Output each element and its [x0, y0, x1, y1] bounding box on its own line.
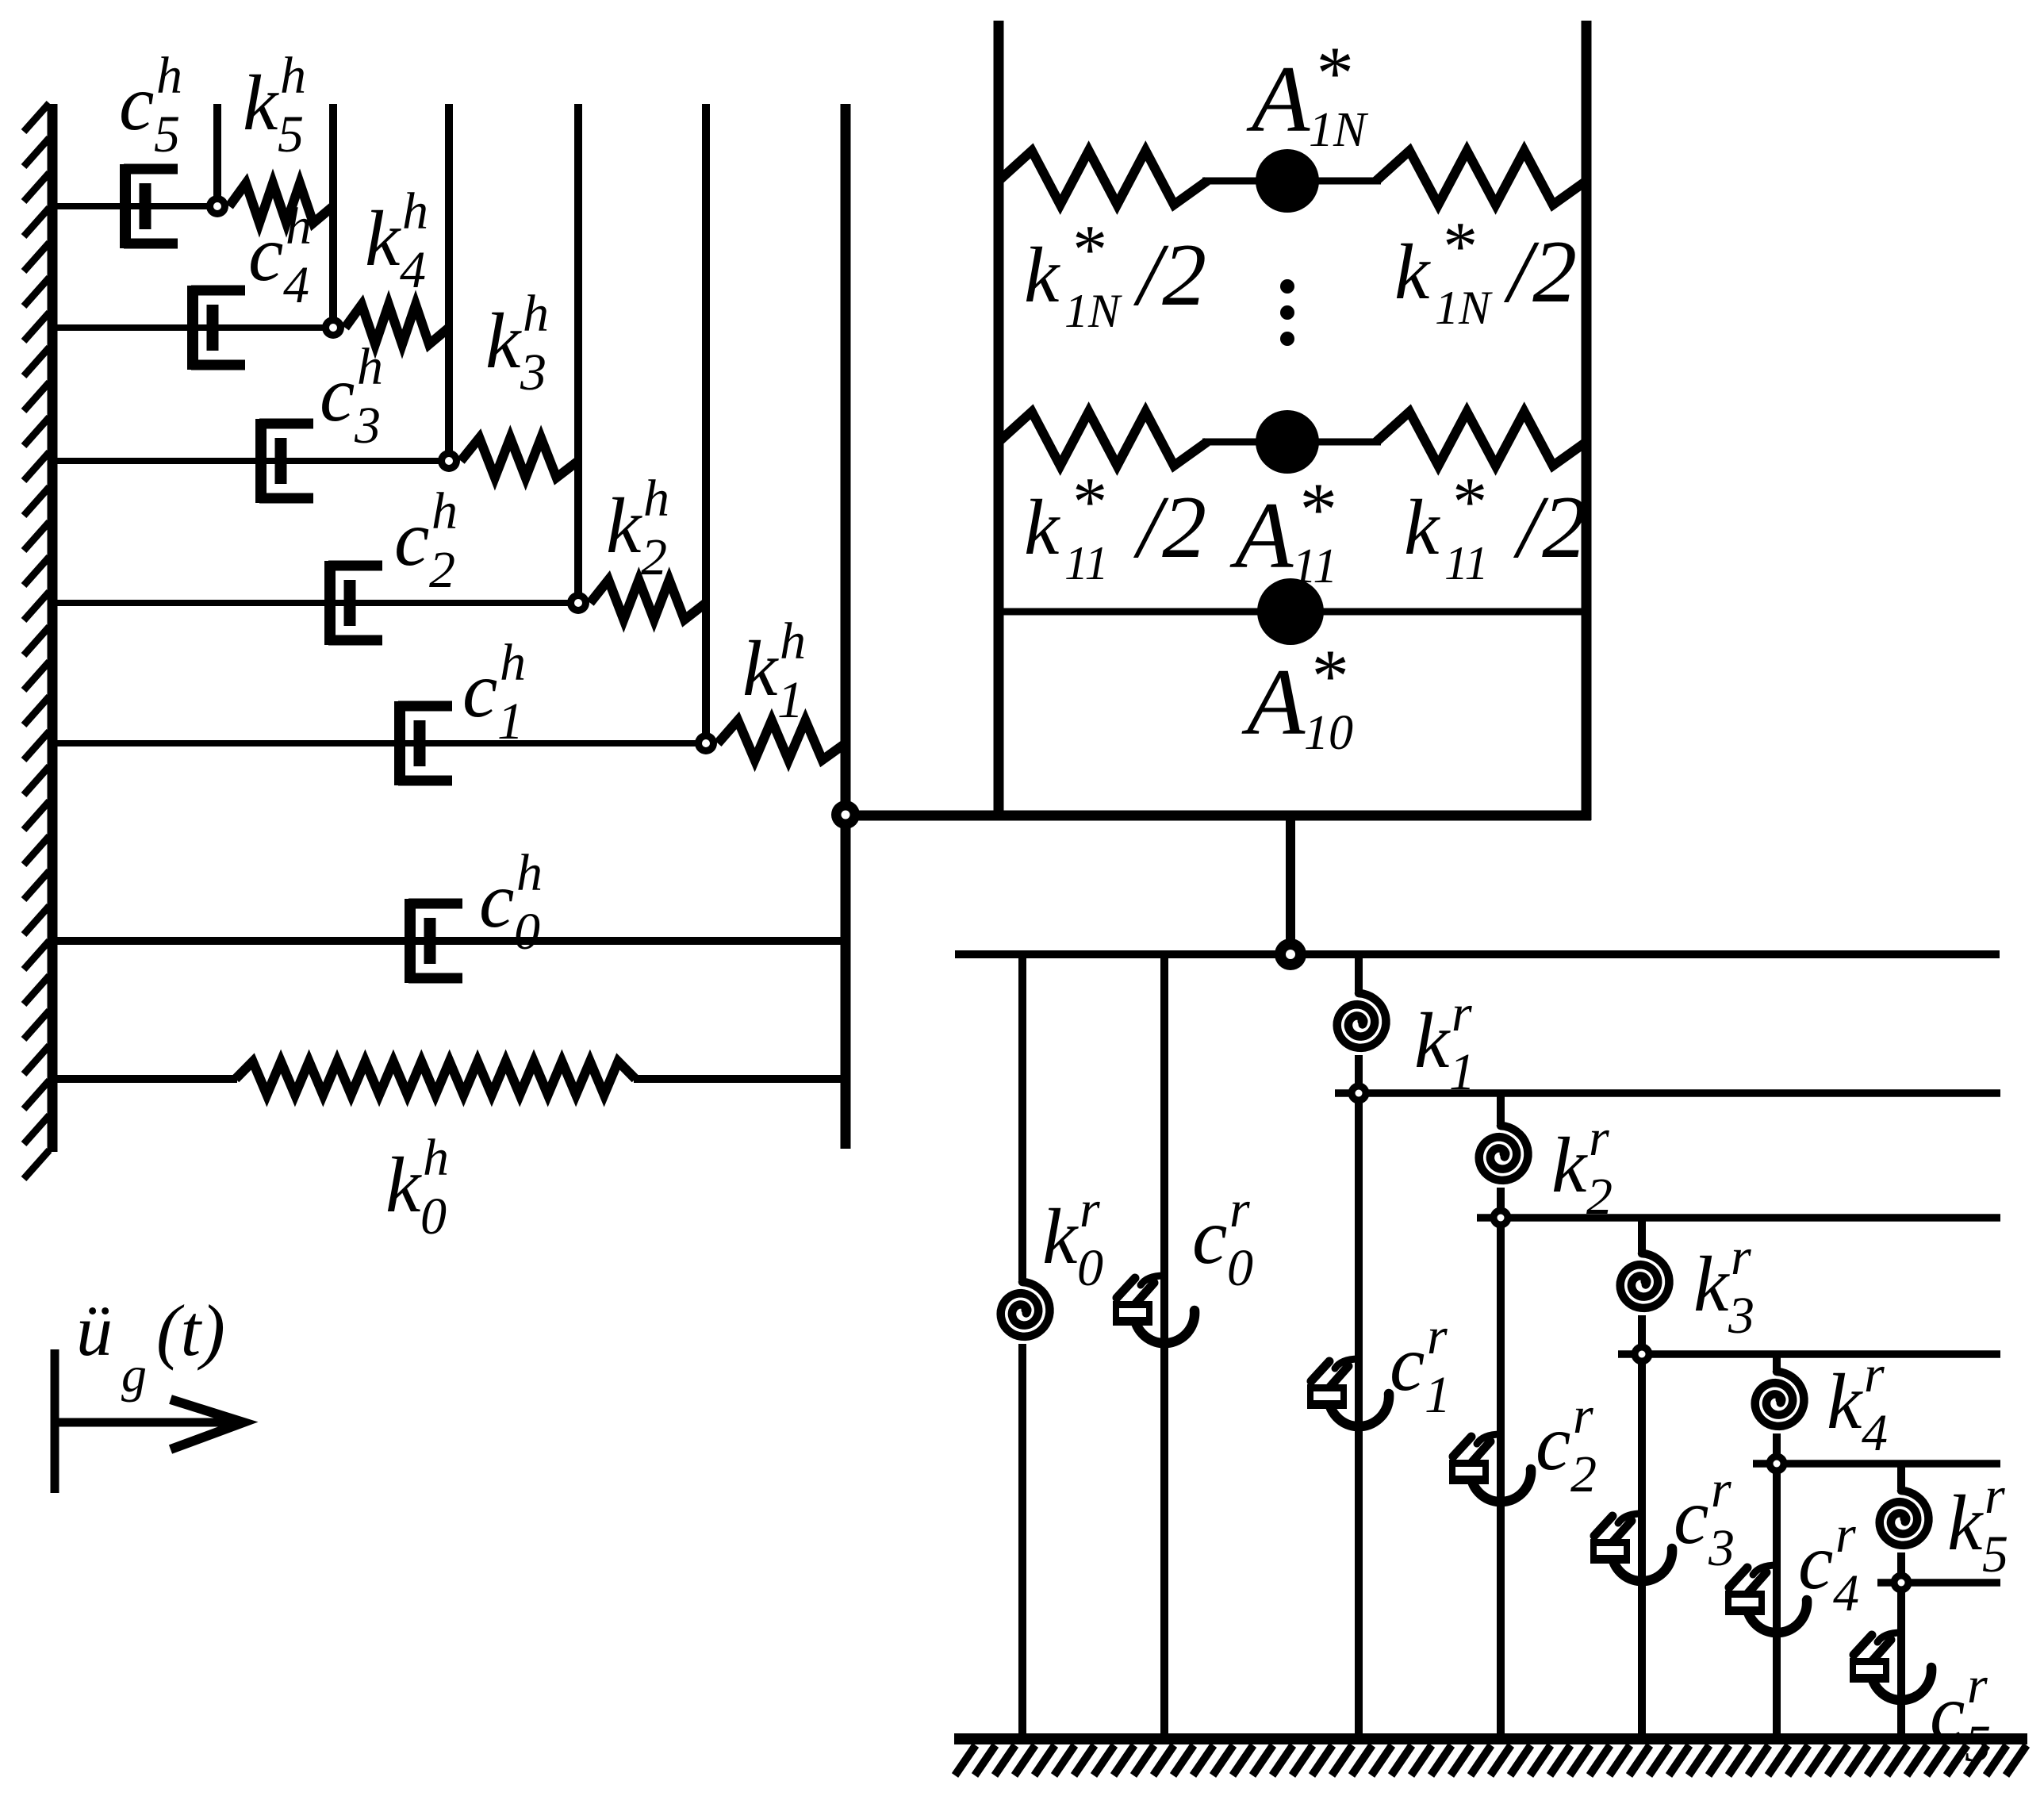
- node row 5: [206, 195, 228, 217]
- svg-text:r: r: [1427, 1307, 1448, 1365]
- box row 1N right spring k*_1N/2: [1376, 151, 1586, 205]
- svg-text:/2: /2: [1133, 226, 1206, 324]
- svg-text:h: h: [431, 482, 458, 540]
- svg-text:c: c: [479, 856, 514, 944]
- node row 4: [322, 317, 344, 339]
- svg-text:r: r: [1573, 1387, 1593, 1445]
- rotational spring k5^r: [1880, 1491, 1929, 1545]
- svg-text:h: h: [500, 634, 526, 692]
- svg-text:h: h: [423, 1129, 449, 1187]
- ground motion reference post: [51, 1349, 59, 1493]
- chain k0 column upper: [1018, 954, 1026, 1280]
- svg-text:2: 2: [429, 541, 455, 599]
- svg-text:11: 11: [1292, 539, 1337, 593]
- svg-text:c: c: [320, 350, 355, 438]
- svg-text:r: r: [1080, 1180, 1100, 1238]
- svg-text:h: h: [780, 612, 806, 670]
- rotational spring k2^r: [1479, 1126, 1528, 1180]
- svg-text:1N: 1N: [1435, 282, 1493, 334]
- chain 1 column: [1355, 954, 1363, 1739]
- svg-text:r: r: [1731, 1228, 1751, 1286]
- chain c0 column: [1160, 954, 1168, 1739]
- chain 4 node: [1766, 1453, 1788, 1475]
- svg-text:c: c: [1192, 1192, 1227, 1280]
- rotational spring k1^r: [1337, 993, 1386, 1048]
- arrowhead: [171, 1399, 244, 1449]
- box row 1N wire left of mass: [1202, 178, 1287, 185]
- svg-text:k: k: [1024, 483, 1060, 571]
- wire row 4: [52, 324, 333, 331]
- chain k0 column lower: [1018, 1344, 1026, 1739]
- rotational damper c3^r: [1612, 1549, 1672, 1581]
- svg-text:r: r: [1452, 984, 1472, 1042]
- svg-text:2: 2: [1586, 1168, 1613, 1226]
- svg-text:4: 4: [1862, 1404, 1888, 1462]
- rotational spring k4^r: [1755, 1372, 1804, 1426]
- svg-text:10: 10: [1304, 706, 1353, 760]
- svg-text:k: k: [1394, 228, 1431, 316]
- chain 2 column: [1497, 1093, 1505, 1739]
- svg-text:1: 1: [777, 671, 803, 729]
- rotational damper c4^r: [1747, 1600, 1807, 1633]
- box bottom / foundation line: [846, 811, 1591, 821]
- svg-text:*: *: [1069, 212, 1104, 289]
- svg-text:c: c: [119, 59, 154, 147]
- connector box-to-deck: [1286, 816, 1295, 954]
- svg-text:k: k: [742, 624, 779, 712]
- svg-text:c: c: [1390, 1319, 1425, 1407]
- column k2-k1: [702, 104, 710, 743]
- box row 11 wire right of mass: [1287, 439, 1381, 446]
- svg-text:r: r: [1985, 1467, 2005, 1525]
- vertical ellipsis dots: [1280, 279, 1294, 294]
- svg-text:*: *: [1449, 464, 1484, 541]
- svg-text:r: r: [1835, 1506, 1856, 1564]
- svg-text:h: h: [280, 47, 306, 105]
- svg-text:*: *: [1440, 209, 1475, 286]
- mass node A*_1N: [1256, 149, 1319, 213]
- chain 3 column: [1638, 1218, 1646, 1739]
- svg-text:1N: 1N: [1064, 285, 1122, 337]
- column k3-k2: [574, 104, 582, 603]
- box row 11 left spring k*_11/2: [999, 412, 1207, 466]
- svg-text:0: 0: [420, 1188, 447, 1245]
- level 1 line: [1335, 1089, 2000, 1097]
- dashpot c5^h: [120, 164, 131, 248]
- svg-text:1: 1: [1449, 1043, 1475, 1101]
- chain 3 node: [1632, 1344, 1653, 1365]
- node row 1: [695, 732, 717, 754]
- svg-text:k: k: [1042, 1192, 1079, 1280]
- svg-text:c: c: [394, 494, 429, 582]
- svg-text:k: k: [1947, 1479, 1984, 1567]
- chain 4 column: [1773, 1354, 1781, 1739]
- wire k0 right: [634, 1075, 846, 1083]
- chain 5 node: [1891, 1572, 1912, 1594]
- svg-text:h: h: [643, 470, 669, 528]
- svg-text:/2: /2: [1513, 478, 1586, 577]
- rotational spring k3^r: [1620, 1253, 1670, 1308]
- svg-text:2: 2: [641, 528, 667, 586]
- deck node: [1275, 938, 1306, 970]
- svg-text:r: r: [1967, 1656, 1988, 1714]
- level 4 line: [1753, 1460, 2000, 1468]
- svg-text:k: k: [385, 1141, 422, 1229]
- svg-text:5: 5: [1982, 1526, 2008, 1583]
- column k5-k4: [329, 104, 337, 328]
- spring k1^h: [718, 720, 846, 760]
- svg-text:5: 5: [154, 106, 180, 163]
- deck (foundation rotation line): [955, 950, 2000, 958]
- svg-text:k: k: [606, 482, 642, 570]
- svg-text:k: k: [1551, 1121, 1588, 1209]
- svg-text:4: 4: [283, 256, 309, 314]
- rotational damper c2^r: [1471, 1469, 1531, 1502]
- svg-text:h: h: [516, 844, 543, 902]
- column k4-k3: [445, 104, 453, 461]
- rotational spring k0^r: [1001, 1282, 1050, 1337]
- box row 11 right spring k*_11/2: [1376, 412, 1586, 466]
- spring k4^h: [345, 305, 449, 344]
- wire row 0 (c0): [52, 937, 846, 945]
- svg-text:1: 1: [1425, 1366, 1451, 1424]
- dashpot c1^h: [394, 701, 405, 785]
- wall (fixed support) line: [48, 104, 58, 1152]
- level 5 line: [1877, 1579, 2000, 1587]
- junction node (bus to box/deck): [831, 800, 860, 829]
- spring k5^h: [229, 183, 333, 223]
- ground line (right): [954, 1733, 2027, 1744]
- dashpot c3^h: [255, 419, 267, 503]
- rotational damper c0^r: [1134, 1311, 1195, 1343]
- svg-text:r: r: [1864, 1345, 1885, 1403]
- rotational damper c5^r: [1871, 1668, 1931, 1700]
- column above node 5: [213, 104, 221, 206]
- svg-text:k: k: [243, 59, 279, 147]
- node row 2: [567, 592, 589, 614]
- level 2 line: [1477, 1214, 2000, 1222]
- svg-text:/2: /2: [1133, 478, 1206, 577]
- spring k0^h: [236, 1061, 635, 1095]
- node row 3: [438, 450, 460, 472]
- chain 5 column: [1897, 1464, 1905, 1739]
- svg-text:3: 3: [520, 343, 546, 401]
- svg-text:h: h: [156, 47, 182, 105]
- svg-text:(t): (t): [156, 1290, 225, 1371]
- svg-text:11: 11: [1064, 537, 1109, 589]
- svg-text:c: c: [1798, 1518, 1833, 1606]
- wire row 1: [52, 740, 706, 746]
- mass node A*_11: [1256, 410, 1319, 474]
- svg-text:4: 4: [1833, 1564, 1859, 1622]
- mass node A*_10: [1257, 578, 1324, 645]
- svg-text:ü: ü: [76, 1290, 113, 1371]
- spring k2^h: [590, 580, 706, 620]
- svg-text:1N: 1N: [1309, 103, 1369, 157]
- level 3 line: [1618, 1350, 2000, 1358]
- svg-text:3: 3: [354, 397, 381, 455]
- svg-text:g: g: [121, 1346, 147, 1403]
- svg-text:3: 3: [1708, 1519, 1735, 1577]
- svg-text:c: c: [1674, 1472, 1708, 1560]
- svg-text:r: r: [1589, 1109, 1609, 1167]
- wall hatching: [24, 103, 49, 1179]
- spring k3^h: [461, 438, 578, 478]
- wire row 2: [52, 600, 578, 606]
- svg-text:c: c: [1930, 1668, 1965, 1756]
- svg-text:k: k: [485, 297, 522, 385]
- box left edge: [994, 21, 1004, 820]
- svg-text:c: c: [248, 209, 283, 297]
- dashpot c4^h: [187, 286, 198, 370]
- svg-text:5: 5: [1965, 1715, 1991, 1773]
- svg-text:k: k: [1024, 231, 1060, 319]
- svg-text:3: 3: [1728, 1287, 1754, 1345]
- ground hatching: [955, 1745, 2027, 1775]
- box row 10 wire: [999, 608, 1586, 616]
- svg-text:A: A: [1246, 46, 1310, 152]
- svg-text:k: k: [1414, 996, 1451, 1084]
- svg-text:k: k: [1693, 1240, 1730, 1328]
- box row 11 wire left of mass: [1202, 439, 1287, 446]
- svg-text:h: h: [402, 182, 428, 240]
- svg-text:5: 5: [278, 106, 304, 163]
- svg-text:0: 0: [514, 903, 540, 961]
- svg-text:0: 0: [1077, 1239, 1103, 1297]
- svg-text:r: r: [1711, 1460, 1731, 1518]
- dashpot c2^h: [324, 561, 336, 645]
- svg-text:k: k: [1404, 483, 1440, 571]
- svg-text:k: k: [1827, 1357, 1863, 1445]
- wire row 5: [52, 203, 217, 209]
- svg-text:2: 2: [1570, 1445, 1597, 1503]
- svg-text:c: c: [1536, 1399, 1570, 1487]
- rotational damper c1^r: [1329, 1394, 1389, 1426]
- box right edge: [1582, 21, 1592, 820]
- svg-text:h: h: [357, 338, 383, 396]
- wire row 3: [52, 458, 449, 464]
- svg-text:0: 0: [1227, 1239, 1253, 1297]
- svg-text:k: k: [365, 194, 401, 282]
- svg-text:/2: /2: [1503, 223, 1577, 321]
- chain 1 node: [1348, 1083, 1370, 1104]
- svg-text:A: A: [1241, 649, 1306, 754]
- bus column: [841, 104, 851, 1149]
- ground motion arrow shaft: [55, 1418, 238, 1427]
- svg-text:11: 11: [1444, 537, 1489, 589]
- svg-text:r: r: [1229, 1180, 1250, 1238]
- svg-text:c: c: [462, 646, 497, 734]
- svg-text:1: 1: [497, 693, 523, 750]
- svg-text:h: h: [523, 285, 549, 343]
- svg-text:4: 4: [400, 241, 426, 299]
- chain 2 node: [1490, 1207, 1512, 1229]
- svg-text:*: *: [1069, 464, 1104, 541]
- dashpot c0^h: [405, 899, 416, 983]
- wire k0 left: [52, 1075, 237, 1083]
- box row 1N left spring k*_1N/2: [999, 151, 1207, 205]
- svg-text:h: h: [286, 198, 312, 255]
- svg-text:A: A: [1229, 482, 1294, 588]
- box row 1N wire right of mass: [1287, 178, 1381, 185]
